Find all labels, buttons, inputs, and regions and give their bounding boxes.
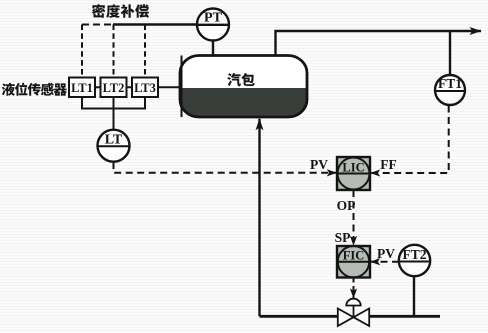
wire: feedwater pipe left of valve xyxy=(260,315,339,318)
wire: dashed signal FIC to valve actuator xyxy=(353,278,355,299)
steam drum vessel 汽包 xyxy=(180,56,307,118)
wire: tap down to FT1 xyxy=(449,31,451,76)
transmitter FT2 xyxy=(399,245,430,276)
svg-text:LT: LT xyxy=(105,133,123,148)
transmitter LT2 xyxy=(101,78,127,98)
label PV (to FIC) xyxy=(377,246,395,261)
wire: dashed PV signal FT2 to FIC xyxy=(371,261,399,263)
transmitter LT1 xyxy=(69,78,95,98)
wire: level tap line behind LT boxes xyxy=(82,86,181,88)
wire: dashed drop to LT1 xyxy=(81,25,83,78)
wire: FT2 tap to pipe xyxy=(413,276,415,316)
label PV (to LIC) xyxy=(310,157,328,172)
svg-text:LIC: LIC xyxy=(342,160,364,174)
transmitter PT xyxy=(197,9,229,41)
label 密度补偿 (density compensation) xyxy=(92,4,149,18)
label SP xyxy=(335,230,351,245)
label 液位传感器 (level sensors) xyxy=(2,83,67,96)
svg-text:PV: PV xyxy=(310,157,328,172)
wire: dashed OP signal LIC to FIC xyxy=(353,190,355,245)
wire: feedwater pipe right of valve xyxy=(369,315,441,318)
svg-text:FT1: FT1 xyxy=(438,76,462,91)
svg-text:SP: SP xyxy=(335,230,351,245)
wire: steam outlet with arrow xyxy=(276,31,482,56)
transmitter LT3 xyxy=(132,78,158,98)
wire: dashed drop to LT3 xyxy=(144,25,146,78)
label FF xyxy=(380,157,397,172)
svg-text:LT2: LT2 xyxy=(103,81,125,95)
wire: dashed signal line top-left horizontal xyxy=(82,24,114,26)
transmitter LT xyxy=(98,130,130,162)
controller FIC xyxy=(337,246,370,278)
wire: dashed drop to LT2 xyxy=(113,25,115,78)
wire: dashed FF signal FT1 to LIC xyxy=(371,106,449,174)
control valve body xyxy=(338,309,369,327)
wire: solid line from junction to PT xyxy=(113,23,229,25)
svg-text:PT: PT xyxy=(204,11,223,26)
valve actuator diaphragm xyxy=(346,299,360,317)
svg-text:FF: FF xyxy=(380,157,397,172)
wire: PT to drum xyxy=(212,41,214,57)
controller LIC xyxy=(337,157,370,190)
wire: bracket joining LT1-LT3 outputs xyxy=(82,97,145,109)
transmitter FT1 xyxy=(435,75,465,105)
wire: feedwater riser into drum with arrow xyxy=(258,119,260,316)
svg-text:FIC: FIC xyxy=(343,249,365,263)
svg-text:FT2: FT2 xyxy=(402,247,426,262)
svg-text:LT3: LT3 xyxy=(134,81,156,95)
wire: LT2 output down to LT xyxy=(113,97,115,130)
svg-text:PV: PV xyxy=(377,246,395,261)
wire: dashed PV signal LT to LIC xyxy=(114,162,337,173)
svg-text:LT1: LT1 xyxy=(71,81,93,95)
label OP xyxy=(337,198,356,213)
